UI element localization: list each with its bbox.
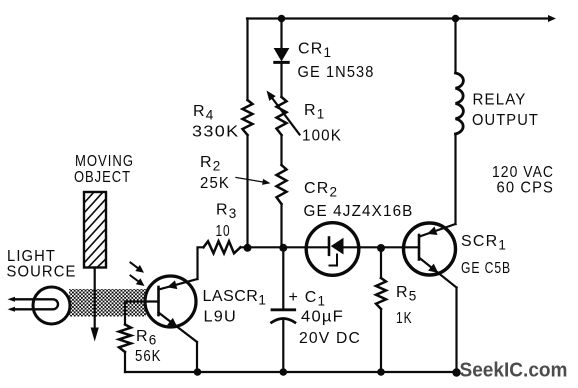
wire node line CR2 to SCR1 gate bbox=[344, 246, 420, 248]
svg-text:L9U: L9U bbox=[204, 309, 238, 326]
resistor R3 bbox=[204, 241, 241, 253]
svg-text:40µF: 40µF bbox=[301, 309, 344, 326]
svg-text:R3: R3 bbox=[216, 202, 236, 222]
node top CR1 bbox=[278, 15, 286, 23]
svg-text:GE C5B: GE C5B bbox=[461, 260, 511, 277]
potentiometer R1 bbox=[267, 91, 300, 136]
wire CR1 to R1 bbox=[280, 62, 282, 97]
node gate C1 bbox=[279, 244, 287, 252]
svg-text:MOVING: MOVING bbox=[75, 153, 134, 170]
svg-text:330K: 330K bbox=[192, 124, 240, 141]
svg-text:GE 1N538: GE 1N538 bbox=[298, 64, 375, 81]
node gate R4 bbox=[244, 244, 252, 252]
wire R4 branch upper bbox=[246, 19, 248, 101]
svg-text:120 VAC: 120 VAC bbox=[492, 164, 554, 181]
wire R2 to node line bbox=[280, 204, 282, 247]
svg-text:R5: R5 bbox=[396, 284, 416, 304]
node top relay bbox=[452, 15, 460, 23]
svg-text:100K: 100K bbox=[302, 128, 342, 145]
wire top rail bbox=[247, 17, 549, 19]
trigger diode CR2 bbox=[306, 223, 359, 276]
svg-text:60 CPS: 60 CPS bbox=[497, 180, 555, 197]
svg-text:GE 4JZ4X16B: GE 4JZ4X16B bbox=[304, 203, 414, 220]
wire LASCR gate to R6 bbox=[124, 302, 126, 325]
diode CR1 bbox=[275, 49, 289, 63]
node rail LASCR bbox=[194, 368, 202, 376]
wire R1 to R2 bbox=[280, 135, 282, 165]
svg-text:R4: R4 bbox=[193, 103, 214, 123]
light arrows at LASCR bbox=[131, 263, 145, 287]
svg-text:OUTPUT: OUTPUT bbox=[472, 112, 539, 129]
svg-text:R1: R1 bbox=[304, 102, 324, 122]
svg-text:25K: 25K bbox=[200, 175, 230, 192]
wire LASCR cathode down bbox=[196, 342, 198, 372]
svg-text:+ C1: + C1 bbox=[289, 289, 325, 309]
terminal arrow right end of top rail bbox=[548, 15, 556, 22]
moving object bbox=[84, 192, 106, 268]
svg-text:LIGHT: LIGHT bbox=[7, 248, 56, 265]
wire gate node line left corner bbox=[198, 247, 204, 279]
wire node line R3 to CR2 bbox=[241, 246, 330, 248]
resistor R6 bbox=[119, 325, 131, 353]
resistor R5 bbox=[376, 248, 386, 372]
capacitor C1 bbox=[272, 247, 296, 372]
svg-text:SOURCE: SOURCE bbox=[7, 264, 77, 281]
svg-text:CR1: CR1 bbox=[298, 41, 331, 61]
svg-text:OBJECT: OBJECT bbox=[74, 169, 131, 186]
svg-text:10: 10 bbox=[216, 223, 231, 240]
wire R6 to bottom rail bbox=[124, 352, 126, 372]
svg-text:SeekIC.com: SeekIC.com bbox=[460, 360, 568, 382]
svg-text:RELAY: RELAY bbox=[473, 92, 527, 109]
wire CR1 branch top bbox=[280, 19, 282, 50]
svg-text:R6: R6 bbox=[136, 328, 156, 348]
light beam bbox=[69, 289, 146, 317]
svg-text:20V DC: 20V DC bbox=[299, 330, 361, 347]
relay coil bbox=[456, 19, 464, 225]
node rail R5 bbox=[377, 368, 385, 376]
lamp light source bbox=[8, 287, 71, 324]
wire R4 branch lower bbox=[246, 135, 248, 247]
svg-text:CR2: CR2 bbox=[304, 180, 337, 200]
svg-text:SCR1: SCR1 bbox=[461, 233, 506, 253]
svg-text:R2: R2 bbox=[200, 154, 220, 174]
arrow moving object motion bbox=[91, 268, 99, 342]
node gate R5 bbox=[377, 244, 385, 252]
wire SCR1 cathode down bbox=[455, 288, 457, 373]
node rail SCR bbox=[452, 368, 460, 376]
svg-text:LASCR1: LASCR1 bbox=[203, 288, 266, 308]
svg-text:1K: 1K bbox=[396, 310, 413, 327]
SCR1 bbox=[404, 223, 457, 288]
potentiometer R2 bbox=[236, 165, 287, 204]
LASCR1 L9U bbox=[125, 276, 198, 342]
resistor R4 bbox=[243, 100, 253, 135]
node rail C1 bbox=[280, 368, 288, 376]
svg-text:56K: 56K bbox=[135, 348, 162, 365]
wire bottom rail bbox=[125, 371, 457, 373]
